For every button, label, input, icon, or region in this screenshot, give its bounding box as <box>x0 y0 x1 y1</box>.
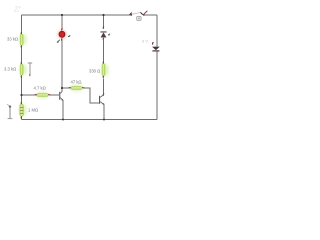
node bottom junction Q1 <box>62 119 64 121</box>
node top junction B <box>102 14 104 16</box>
node divider junction <box>20 94 22 96</box>
LED D2 unlit <box>100 27 110 40</box>
resistor R1 body <box>19 32 27 47</box>
wire Q2 emitter vertical <box>103 105 105 120</box>
wire 4.7k to Q1 base <box>49 94 60 96</box>
transistor Q1 <box>59 91 63 101</box>
wire 47k feed <box>62 87 71 89</box>
probe arrow beside R2 <box>28 63 32 76</box>
resistor R2 body <box>19 62 27 77</box>
svg-text:0.1: 0.1 <box>14 9 19 13</box>
net label top left <box>14 6 21 14</box>
wire right vertical <box>156 15 158 120</box>
diode D3 <box>152 42 159 51</box>
svg-text:47 kΩ: 47 kΩ <box>71 80 82 85</box>
wire Q1 emitter vertical <box>62 101 64 120</box>
svg-text:330 Ω: 330 Ω <box>89 69 100 74</box>
switch key label <box>137 16 141 20</box>
node collector junction Q1 <box>61 87 63 89</box>
svg-text:1 MΩ: 1 MΩ <box>28 108 38 113</box>
node top junction A <box>61 14 63 16</box>
node bottom junction Q2 <box>103 119 105 121</box>
wire base branch Q1 <box>22 94 37 96</box>
switch S1 <box>130 11 148 16</box>
resistor R5 body 330Ω <box>101 62 109 78</box>
wire 47k to Q2 base <box>83 88 99 103</box>
LED D1 lit <box>57 28 71 42</box>
wire bottom rail <box>22 119 158 121</box>
wire LED2/330 branch vertical <box>103 15 105 95</box>
photoresistor LDR body <box>19 102 27 118</box>
light icon beside LDR <box>7 104 12 119</box>
transistor Q2 <box>99 94 104 105</box>
wire left vertical <box>21 15 23 120</box>
wire LED branch vertical <box>61 15 63 91</box>
svg-text:4.7 kΩ: 4.7 kΩ <box>34 86 46 91</box>
resistor R4 body horizontal 47k <box>69 85 84 92</box>
svg-text:33 kΩ: 33 kΩ <box>7 37 18 42</box>
svg-text:9 V: 9 V <box>142 39 148 44</box>
wire top rail <box>22 14 158 16</box>
resistor R3 body horizontal 4.7k <box>35 92 50 99</box>
svg-text:3.3 kΩ: 3.3 kΩ <box>4 67 16 72</box>
